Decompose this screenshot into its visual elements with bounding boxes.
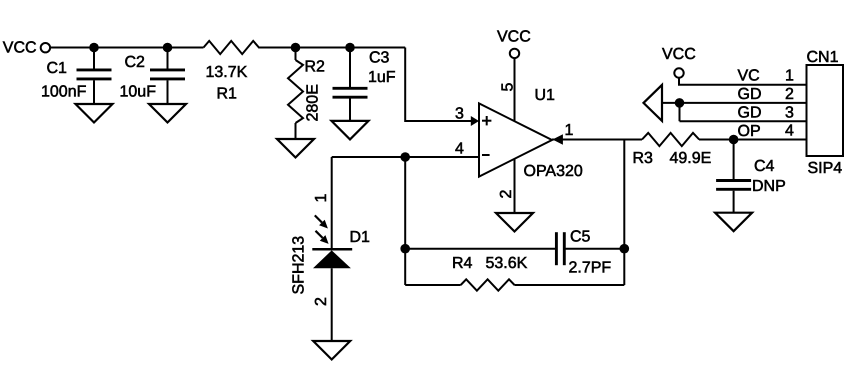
svg-text:DNP: DNP — [752, 178, 786, 195]
svg-text:4: 4 — [785, 123, 794, 140]
svg-text:3: 3 — [455, 106, 464, 123]
svg-text:2: 2 — [498, 190, 515, 199]
svg-text:1: 1 — [785, 68, 794, 85]
svg-text:1uF: 1uF — [368, 69, 396, 86]
svg-text:49.9E: 49.9E — [670, 150, 712, 167]
svg-text:VCC: VCC — [497, 29, 531, 46]
svg-text:GD: GD — [738, 104, 762, 121]
svg-text:C4: C4 — [754, 158, 775, 175]
svg-text:VCC: VCC — [3, 40, 37, 57]
svg-text:GD: GD — [738, 86, 762, 103]
svg-text:53.6K: 53.6K — [486, 255, 528, 272]
svg-text:OPA320: OPA320 — [524, 163, 583, 180]
svg-text:R4: R4 — [452, 255, 473, 272]
svg-text:C5: C5 — [570, 229, 591, 246]
svg-text:R1: R1 — [217, 86, 238, 103]
svg-text:3: 3 — [785, 104, 794, 121]
svg-text:CN1: CN1 — [807, 49, 839, 66]
svg-text:OP: OP — [738, 123, 761, 140]
svg-text:C1: C1 — [47, 60, 68, 77]
svg-text:R3: R3 — [633, 150, 654, 167]
svg-text:1: 1 — [565, 122, 574, 139]
svg-text:SFH213: SFH213 — [291, 236, 308, 295]
svg-text:13.7K: 13.7K — [206, 64, 248, 81]
svg-text:5: 5 — [500, 83, 517, 92]
svg-text:R2: R2 — [305, 59, 326, 76]
svg-text:U1: U1 — [535, 87, 556, 104]
svg-text:SIP4: SIP4 — [808, 160, 843, 177]
svg-text:VC: VC — [738, 68, 760, 85]
svg-text:10uF: 10uF — [120, 84, 157, 101]
svg-text:2: 2 — [785, 86, 794, 103]
svg-text:280E: 280E — [305, 84, 322, 121]
svg-text:2.7PF: 2.7PF — [569, 260, 612, 277]
svg-text:2: 2 — [313, 297, 330, 306]
svg-text:C3: C3 — [369, 50, 390, 67]
svg-text:4: 4 — [455, 141, 464, 158]
svg-text:VCC: VCC — [662, 46, 696, 63]
svg-text:D1: D1 — [350, 229, 371, 246]
svg-text:100nF: 100nF — [41, 84, 87, 101]
svg-text:1: 1 — [313, 194, 330, 203]
svg-text:C2: C2 — [125, 54, 146, 71]
